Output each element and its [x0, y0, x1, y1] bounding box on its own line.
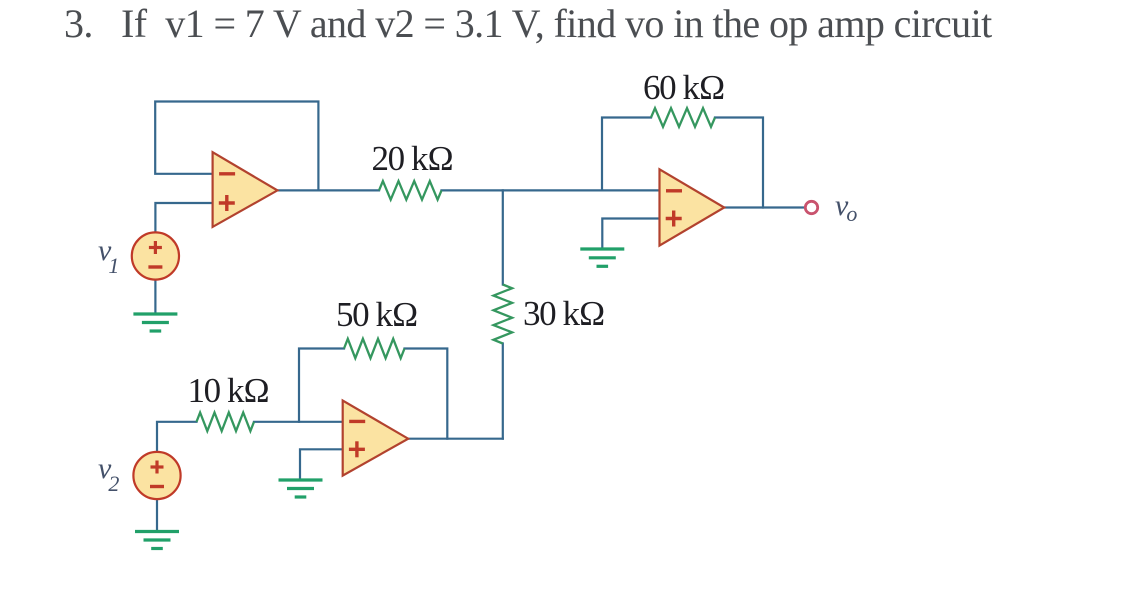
- wire: v2 bottom to ground: [156, 499, 158, 530]
- wire: 20k resistor to U3 inverting input (through node A): [442, 189, 660, 191]
- op-amp U3 (summing amplifier): [660, 169, 725, 245]
- ground at U3 non-inverting input: [580, 249, 624, 266]
- voltage source v2: [133, 452, 180, 499]
- wire: 50k feedback loop left side: [299, 349, 344, 422]
- label 10 kOhm: [188, 371, 269, 411]
- wire: 10k resistor to U2 inverting input: [254, 421, 343, 423]
- resistor 10k zigzag: [197, 413, 255, 432]
- wire: v2 top corner to 10k resistor: [157, 422, 197, 452]
- op-amp U1 (buffer for v1): [213, 152, 278, 227]
- ground at U2 non-inverting input: [279, 480, 323, 497]
- resistor 60k zigzag: [651, 108, 715, 127]
- voltage source v1: [132, 232, 179, 279]
- wire: node A down to 30k resistor top: [502, 190, 504, 284]
- label v1: [98, 234, 119, 279]
- label 60 kOhm: [643, 68, 724, 108]
- wire: U1 feedback loop (output to inverting input): [155, 102, 318, 191]
- wire: U1 output to 20k resistor: [277, 189, 379, 191]
- label 30 kOhm: [523, 294, 604, 334]
- resistor 30k zigzag (vertical): [494, 285, 513, 344]
- op-amp U2 (inverting amplifier for v2): [343, 401, 409, 476]
- wire: 60k feedback loop right side to U3 output: [715, 118, 763, 208]
- wire: v1 bottom to ground: [154, 280, 156, 313]
- wire: 30k resistor bottom to U2 output wire: [502, 344, 504, 439]
- wire: U2 output to node B: [408, 438, 503, 440]
- resistor 20k zigzag: [379, 181, 442, 200]
- ground under v1: [133, 314, 177, 331]
- label 20 kOhm: [372, 139, 453, 179]
- wire: U2 non-inverting input to ground: [300, 449, 343, 479]
- wire: v1 to U1 non-inverting input: [155, 203, 213, 233]
- resistor 50k zigzag: [344, 339, 405, 358]
- wire: 50k feedback loop right side: [405, 349, 448, 439]
- label vo: [835, 189, 857, 227]
- title text: [64, 0, 992, 47]
- wire: 60k feedback loop left side: [602, 118, 651, 191]
- wire: U3 non-inverting input to ground: [602, 219, 659, 249]
- ground under v2: [135, 532, 179, 549]
- label 50 kOhm: [336, 295, 417, 335]
- output terminal node vo: [805, 201, 817, 213]
- wire: U3 output to vo terminal: [724, 206, 805, 208]
- label v2: [98, 452, 119, 497]
